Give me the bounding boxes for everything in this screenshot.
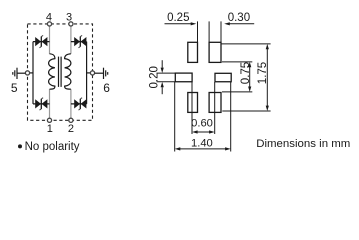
svg-text:3: 3 bbox=[66, 12, 72, 24]
svg-text:2: 2 bbox=[68, 123, 74, 135]
svg-text:0.30: 0.30 bbox=[228, 12, 250, 24]
svg-text:1: 1 bbox=[47, 123, 53, 135]
svg-text:6: 6 bbox=[103, 81, 110, 95]
svg-text:0.20: 0.20 bbox=[148, 66, 160, 88]
svg-text:0.60: 0.60 bbox=[191, 118, 213, 130]
svg-text:1.40: 1.40 bbox=[191, 138, 213, 150]
svg-text:4: 4 bbox=[46, 12, 52, 24]
svg-text:5: 5 bbox=[11, 81, 18, 95]
svg-text:Dimensions in mm: Dimensions in mm bbox=[256, 138, 350, 150]
svg-text:1.75: 1.75 bbox=[257, 62, 269, 84]
svg-text:0.25: 0.25 bbox=[167, 12, 189, 24]
svg-text:No polarity: No polarity bbox=[25, 141, 80, 153]
svg-text:0.75: 0.75 bbox=[240, 62, 252, 84]
